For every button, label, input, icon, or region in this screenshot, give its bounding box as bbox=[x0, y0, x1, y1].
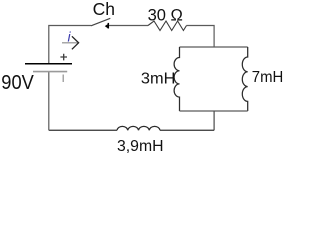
svg-text:30 Ω: 30 Ω bbox=[148, 6, 183, 24]
svg-text:Ch: Ch bbox=[93, 0, 115, 19]
switch Ch contact arrowhead bbox=[105, 24, 108, 28]
inductor 7mH (right branch coil) bbox=[242, 47, 247, 111]
inductor 3,9mH (bottom coil) bbox=[117, 126, 160, 130]
wire: parallel box bottom edge bbox=[180, 110, 248, 112]
battery plus sign bbox=[60, 54, 67, 61]
svg-text:90V: 90V bbox=[1, 72, 34, 94]
wire: parallel box top edge bbox=[180, 46, 248, 48]
battery minus tick bbox=[62, 75, 64, 83]
battery V1 negative plate bbox=[33, 71, 67, 73]
wire: battery positive terminal up to top-left corner and across to switch bbox=[49, 26, 91, 64]
wire: battery negative down to bottom rail bbox=[48, 71, 50, 130]
wire: box bottom to bottom rail bbox=[213, 111, 215, 130]
current arrow i shaft bbox=[62, 42, 78, 44]
wire: switch to resistor bbox=[109, 25, 148, 27]
switch Ch contact bar bbox=[107, 23, 109, 29]
wire: resistor to top-right corner, down to parallel box bbox=[187, 26, 215, 48]
battery V1 positive plate bbox=[25, 63, 72, 65]
switch Ch blade bbox=[91, 18, 110, 26]
current arrow i head bbox=[72, 36, 79, 49]
svg-text:i: i bbox=[68, 28, 72, 44]
svg-text:3,9mH: 3,9mH bbox=[117, 138, 164, 155]
svg-text:7mH: 7mH bbox=[252, 69, 284, 86]
wire: bottom rail left segment bbox=[49, 129, 117, 131]
resistor 30 ohm zigzag bbox=[148, 21, 187, 31]
wire: bottom rail right segment bbox=[160, 129, 214, 131]
svg-text:3mH: 3mH bbox=[141, 70, 176, 87]
inductor 3mH (left branch coil) bbox=[174, 47, 179, 111]
